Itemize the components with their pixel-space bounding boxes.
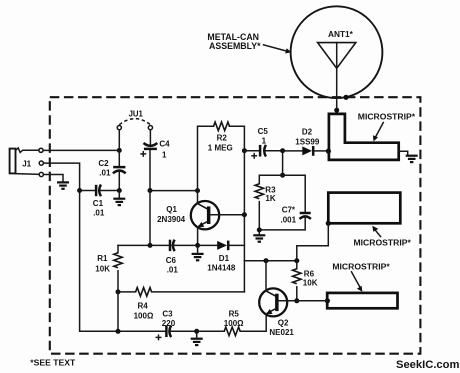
svg-text:1N4148: 1N4148 bbox=[207, 264, 236, 273]
svg-text:NE021: NE021 bbox=[269, 328, 294, 337]
svg-text:C3: C3 bbox=[162, 309, 173, 318]
node: upper microstrip corner bbox=[326, 221, 331, 226]
R3/C7 box wires bbox=[259, 175, 305, 212]
node: Q2 base / R6 junction bbox=[294, 298, 299, 303]
node: R3 box top bbox=[280, 173, 285, 178]
wire collector rail bbox=[150, 190, 198, 192]
svg-text:Q2: Q2 bbox=[278, 318, 289, 327]
ground (J1) bbox=[57, 182, 69, 188]
svg-text:1: 1 bbox=[262, 137, 267, 146]
node: Q1 emitter bbox=[195, 243, 200, 248]
node: D2 to microstrip L bbox=[326, 149, 331, 154]
wire R1 to bottom rail bbox=[117, 292, 119, 331]
node: C1/C2 ground junction bbox=[117, 188, 122, 193]
capacitor C4 bbox=[144, 130, 158, 191]
node: R3 box bottom-left bbox=[257, 227, 262, 232]
svg-text:ASSEMBLY*: ASSEMBLY* bbox=[209, 41, 261, 51]
svg-text:R3: R3 bbox=[265, 185, 276, 194]
node: R6 top junction bbox=[294, 258, 299, 263]
svg-text:C1: C1 bbox=[93, 199, 104, 208]
node: lower microstrip left edge bbox=[325, 298, 330, 303]
svg-text:MICROSTRIP*: MICROSTRIP* bbox=[358, 112, 416, 122]
arrow to metal can bbox=[264, 45, 292, 54]
dashed enclosure border bbox=[50, 97, 421, 354]
rail D1 to Q2/R6 bbox=[244, 260, 296, 262]
arrow to lower microstrip bbox=[352, 272, 363, 292]
node: C5/D2/R3 junction bbox=[280, 148, 285, 153]
svg-text:.001: .001 bbox=[281, 215, 297, 224]
node: Q1 collector / R2 junction bbox=[195, 188, 200, 193]
node: on C6 rail bbox=[148, 243, 153, 248]
microstrip lower rectangle bbox=[327, 293, 397, 308]
svg-text:SeekIC.com: SeekIC.com bbox=[396, 359, 459, 371]
C6 rail bbox=[118, 244, 169, 246]
svg-text:JU1: JU1 bbox=[129, 109, 144, 118]
diode D2 bbox=[283, 146, 328, 156]
svg-text:J1: J1 bbox=[22, 160, 31, 169]
antenna feed wire bbox=[336, 43, 338, 112]
node: R1/R4 junction bbox=[116, 289, 121, 294]
svg-text:R2: R2 bbox=[217, 133, 228, 142]
resistor R1 bbox=[114, 245, 122, 292]
wire base to lower microstrip bbox=[297, 300, 327, 302]
svg-text:C7*: C7* bbox=[282, 206, 296, 215]
svg-text:C2: C2 bbox=[98, 159, 109, 168]
jumper JU1 bbox=[117, 119, 152, 151]
metal can circle bbox=[291, 6, 383, 98]
capacitor C7 bbox=[300, 213, 311, 219]
svg-text:R1: R1 bbox=[97, 254, 108, 263]
jack J1 body bbox=[10, 148, 40, 175]
svg-text:1K: 1K bbox=[265, 194, 275, 203]
node: R2/C5 junction bbox=[242, 148, 247, 153]
transistor Q1 bbox=[191, 191, 245, 246]
capacitor C1 bbox=[80, 185, 120, 197]
diode D1 bbox=[198, 241, 245, 251]
svg-text:10K: 10K bbox=[303, 279, 318, 288]
resistor R4 bbox=[118, 288, 244, 297]
svg-text:MICROSTRIP*: MICROSTRIP* bbox=[354, 237, 412, 247]
capacitor C3 bbox=[166, 326, 196, 338]
svg-text:ANT1*: ANT1* bbox=[328, 29, 354, 39]
node: bottom rail ground bbox=[194, 329, 199, 334]
svg-text:2N3904: 2N3904 bbox=[157, 215, 186, 224]
svg-text:.01: .01 bbox=[93, 208, 105, 217]
node: C2 top / input rail bbox=[117, 148, 122, 153]
plus mark C5 bbox=[252, 154, 256, 158]
svg-text:D1: D1 bbox=[219, 254, 230, 263]
svg-text:.01: .01 bbox=[167, 266, 179, 275]
wire J1 top contact to C2 node bbox=[43, 149, 119, 151]
wire L to ground bbox=[399, 151, 408, 154]
svg-text:C5: C5 bbox=[258, 127, 269, 136]
node: C1 left junction bbox=[77, 188, 82, 193]
svg-text:C6: C6 bbox=[166, 256, 177, 265]
node: R1 bottom bbox=[116, 329, 121, 334]
svg-text:.01: .01 bbox=[99, 168, 111, 177]
wire J1 tip down and bottom rail bbox=[44, 163, 166, 331]
antenna ANT1 triangle bbox=[318, 43, 356, 69]
svg-text:C4: C4 bbox=[159, 139, 170, 148]
node: C4 bottom / collector rail bbox=[148, 188, 153, 193]
svg-text:220: 220 bbox=[162, 319, 176, 328]
svg-text:1: 1 bbox=[162, 150, 167, 159]
arrow to microstrip L bbox=[373, 123, 383, 142]
ground (bottom rail) bbox=[191, 331, 203, 345]
svg-text:*SEE TEXT: *SEE TEXT bbox=[30, 357, 76, 367]
svg-text:R5: R5 bbox=[229, 309, 240, 318]
svg-text:1 MEG: 1 MEG bbox=[208, 144, 233, 153]
svg-text:D2: D2 bbox=[302, 127, 313, 136]
capacitor C6 bbox=[170, 240, 198, 251]
node: Q1 base junction bbox=[242, 212, 247, 217]
node: Q2 collector junction bbox=[264, 258, 269, 263]
ground (microstrip L) bbox=[406, 156, 418, 162]
svg-text:1SS99: 1SS99 bbox=[295, 137, 320, 146]
svg-text:100Ω: 100Ω bbox=[134, 311, 154, 320]
arrow to upper microstrip bbox=[372, 226, 380, 237]
capacitor C5 bbox=[244, 145, 282, 157]
svg-text:10K: 10K bbox=[95, 264, 110, 273]
svg-text:R6: R6 bbox=[304, 269, 315, 278]
capacitor C2 bbox=[113, 150, 126, 190]
wire C5 node down to R3 box bbox=[282, 151, 284, 176]
node: can to shield on dashed border bbox=[343, 95, 348, 100]
node: feed to microstrip L bbox=[334, 108, 339, 113]
resistor R3 bbox=[255, 184, 263, 199]
ground (C2/C1 node) bbox=[113, 191, 125, 206]
resistor R5 bbox=[197, 314, 267, 336]
resistor R6 bbox=[293, 261, 301, 301]
microstrip L-shape bbox=[329, 114, 399, 160]
wire J1 sleeve to ground bbox=[44, 175, 64, 182]
ground (Q1 emitter) bbox=[192, 245, 204, 260]
resistor R2 bbox=[198, 122, 245, 191]
wire C4 node down to C6 rail bbox=[149, 191, 151, 246]
J1 contact circles bbox=[39, 148, 43, 152]
plus mark C3 bbox=[156, 335, 160, 339]
microstrip upper rectangle bbox=[328, 193, 400, 224]
plus mark C4 bbox=[141, 152, 145, 156]
wire upper microstrip to R6 rail bbox=[297, 223, 329, 260]
svg-text:MICROSTRIP*: MICROSTRIP* bbox=[332, 261, 390, 271]
ground (R3 box) bbox=[253, 230, 265, 242]
svg-text:100Ω: 100Ω bbox=[224, 319, 244, 328]
wire main vertical (R2 node to R4 rail) bbox=[243, 151, 245, 292]
svg-text:Q1: Q1 bbox=[166, 205, 177, 214]
transistor Q2 bbox=[259, 261, 297, 317]
svg-text:R4: R4 bbox=[138, 301, 149, 310]
